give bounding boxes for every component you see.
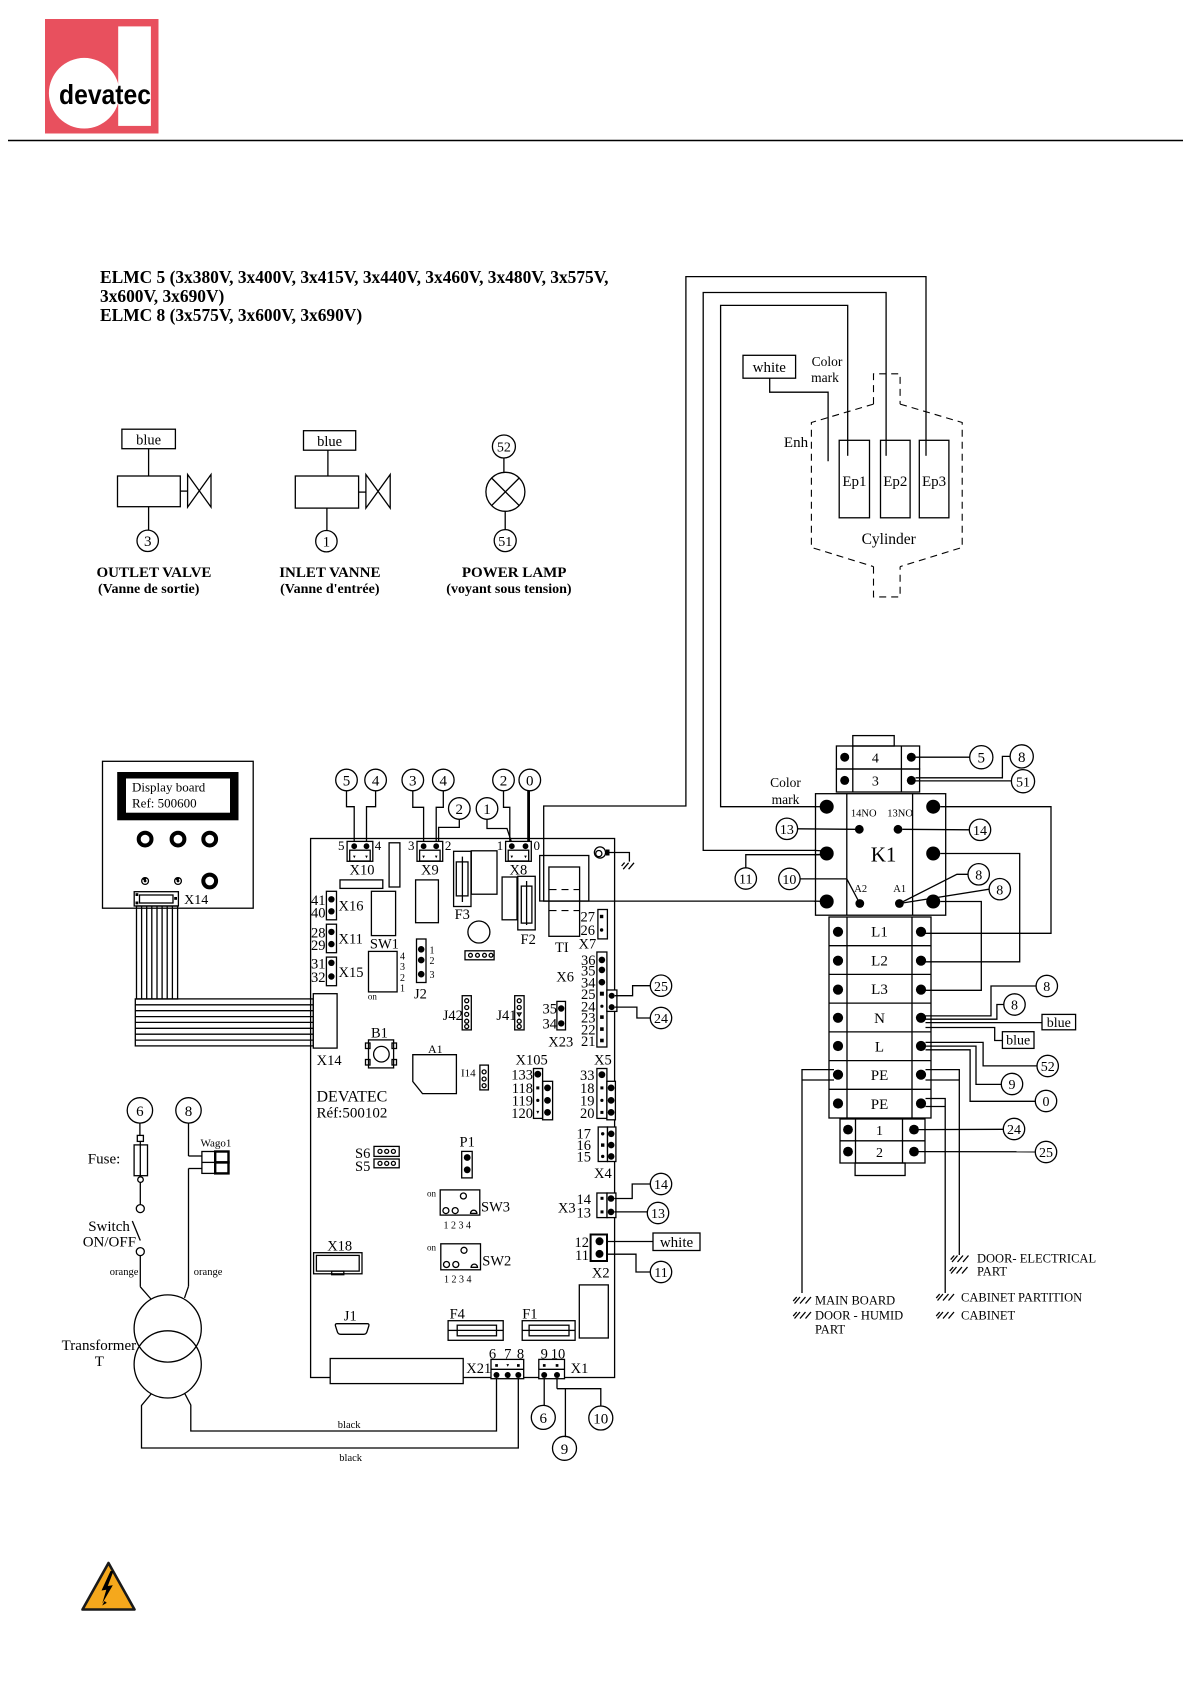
node 51 (right)	[1011, 770, 1034, 793]
connector X6	[556, 952, 607, 1050]
node 8a	[968, 864, 989, 885]
svg-text:2: 2	[500, 773, 508, 789]
wire K1 bottom-right to L3	[926, 902, 982, 991]
led + chassis ground top right	[594, 847, 634, 869]
svg-text:X21: X21	[466, 1361, 491, 1377]
svg-text:blue: blue	[317, 434, 342, 450]
buzzer circle	[468, 921, 490, 943]
wire 0 to X8 (thick)	[527, 791, 530, 845]
node 6 (bottom)	[531, 1405, 555, 1429]
svg-text:Wago1: Wago1	[201, 1138, 232, 1150]
node 6 (fuse feed)	[127, 1098, 152, 1123]
terminal row 4	[836, 746, 919, 769]
svg-text:A2: A2	[854, 884, 867, 895]
svg-text:3: 3	[144, 534, 152, 550]
svg-text:orange: orange	[194, 1267, 223, 1278]
svg-text:L2: L2	[871, 953, 888, 969]
svg-text:13: 13	[780, 823, 794, 838]
svg-text:3: 3	[430, 970, 435, 981]
node 3 (outlet valve)	[137, 530, 158, 551]
svg-text:X6: X6	[556, 970, 574, 986]
connector X3	[558, 1192, 616, 1222]
wire X2-12 to white box	[607, 1241, 653, 1243]
wire A1 to node 8b	[899, 889, 989, 903]
svg-text:3: 3	[409, 773, 417, 789]
svg-text:1: 1	[876, 1124, 883, 1139]
svg-text:K1: K1	[871, 843, 897, 867]
svg-text:11: 11	[575, 1248, 589, 1264]
svg-text:1: 1	[497, 838, 504, 853]
power lamp symbol	[486, 472, 525, 511]
node 5	[336, 769, 358, 791]
node 52 (right)	[1037, 1055, 1058, 1076]
svg-text:on: on	[368, 992, 378, 1002]
wire node8 to wago and down	[188, 1123, 190, 1286]
wire 11 to K1 mid-left	[746, 855, 820, 868]
jumper S5	[355, 1159, 399, 1175]
wire X6-24 to node 24	[615, 1007, 651, 1018]
connector J2	[414, 939, 435, 1003]
svg-text:ON/OFF: ON/OFF	[83, 1235, 136, 1251]
small led 2	[175, 878, 182, 885]
svg-text:X3: X3	[558, 1201, 576, 1217]
wire white box into cylinder	[770, 378, 828, 461]
rect right of F3	[471, 851, 497, 894]
ground cabinet partition	[936, 1291, 1082, 1305]
transformer secondary wires (black)	[142, 1379, 519, 1448]
transformer T	[62, 1295, 202, 1398]
connector X9	[408, 838, 451, 879]
node 10 (bottom)	[589, 1406, 613, 1430]
jumper S6	[355, 1146, 399, 1162]
svg-text:(Vanne de sortie): (Vanne de sortie)	[98, 582, 200, 597]
svg-text:11: 11	[739, 873, 752, 888]
blue box 1	[1042, 1014, 1076, 1029]
svg-text:DOOR- ELECTRICAL: DOOR- ELECTRICAL	[977, 1252, 1096, 1266]
svg-text:52: 52	[1041, 1060, 1055, 1075]
svg-text:X7: X7	[579, 937, 597, 953]
wire block2 to node 25	[918, 1151, 1035, 1153]
wire 4b to X9	[436, 791, 443, 843]
LCD frame	[117, 772, 238, 820]
svg-text:5: 5	[338, 838, 345, 853]
devatec logo	[45, 19, 159, 134]
svg-text:SW1: SW1	[370, 937, 399, 953]
svg-text:6: 6	[540, 1411, 548, 1427]
white color-mark box	[743, 355, 796, 378]
LEGEND: outlet valve	[97, 429, 212, 597]
svg-text:5: 5	[978, 751, 986, 767]
svg-text:Color: Color	[770, 775, 801, 790]
wire A1 to node 8a	[899, 874, 968, 903]
svg-text:X2: X2	[592, 1266, 610, 1282]
connector X15	[311, 957, 363, 987]
svg-text:4: 4	[400, 952, 405, 963]
wago1 block	[201, 1138, 232, 1174]
terminal block 4/3 top rect	[853, 736, 894, 746]
rect left of F2	[502, 877, 517, 920]
svg-text:INLET VANNE: INLET VANNE	[279, 565, 380, 581]
wire N to blue box 1	[926, 1022, 1043, 1024]
terminal row 3	[836, 769, 919, 792]
ribbon cable vertical	[137, 906, 178, 999]
electrode Ep2	[881, 440, 911, 518]
node 51 (power lamp)	[494, 530, 516, 552]
node 8b	[989, 879, 1010, 900]
svg-text:3x600V, 3x690V): 3x600V, 3x690V)	[100, 286, 225, 306]
svg-text:2: 2	[430, 956, 435, 967]
wire K1 mid-right to L2	[926, 854, 1020, 962]
svg-text:DOOR - HUMID: DOOR - HUMID	[815, 1309, 903, 1323]
svg-text:OUTLET VALVE: OUTLET VALVE	[97, 565, 212, 581]
warning triangle	[83, 1563, 135, 1610]
button B1	[366, 1026, 397, 1068]
LEGEND: inlet vanne	[279, 431, 390, 597]
wire X3-14 to node 14	[614, 1184, 650, 1199]
svg-text:TI: TI	[555, 940, 569, 956]
blue box 2	[1002, 1032, 1034, 1049]
svg-text:4: 4	[372, 773, 380, 789]
svg-text:Ep1: Ep1	[842, 474, 866, 490]
svg-text:X14: X14	[184, 893, 208, 908]
rect below X9	[416, 880, 439, 923]
wire stubs inside electrodes	[847, 440, 849, 456]
svg-text:B1: B1	[371, 1026, 388, 1042]
knob 1	[139, 833, 152, 846]
svg-text:1: 1	[430, 945, 435, 956]
connector X5	[580, 1053, 615, 1123]
contactor K1	[816, 794, 946, 916]
svg-text:MAIN BOARD: MAIN BOARD	[815, 1294, 895, 1308]
wire bends into transformer	[140, 1287, 151, 1300]
svg-text:25: 25	[654, 980, 668, 995]
svg-text:Ep2: Ep2	[883, 474, 907, 490]
svg-text:black: black	[338, 1420, 361, 1431]
fuse F3	[454, 851, 471, 923]
small led 1	[142, 878, 149, 885]
connector X10	[338, 838, 382, 879]
ribbon cable horizontal	[135, 999, 313, 1046]
ground door-humid	[793, 1309, 903, 1337]
svg-text:X14: X14	[317, 1053, 343, 1069]
wire N to blue box 2	[926, 1028, 1003, 1041]
node 4	[365, 769, 387, 791]
connector X7	[579, 910, 608, 953]
rect under X10	[340, 880, 383, 889]
SW1 dip block	[369, 951, 398, 992]
wire L to node 52	[926, 1042, 1038, 1066]
svg-text:blue: blue	[136, 433, 161, 449]
svg-text:Cylinder: Cylinder	[862, 531, 917, 548]
electrode Ep1	[839, 440, 869, 518]
wire valve to circle 3	[148, 507, 150, 530]
svg-text:29: 29	[311, 938, 326, 954]
connector X8	[497, 838, 540, 879]
svg-text:X11: X11	[339, 932, 363, 948]
svg-text:11: 11	[654, 1266, 667, 1281]
node 24 (left)	[650, 1007, 671, 1028]
node 8d	[1004, 994, 1025, 1015]
connector I14	[461, 1065, 488, 1090]
node 0 (right)	[1035, 1090, 1056, 1111]
svg-text:ELMC 5 (3x380V, 3x400V, 3x415V: ELMC 5 (3x380V, 3x400V, 3x415V, 3x440V, …	[100, 267, 608, 287]
cylinder bottom neck	[874, 567, 901, 597]
wire PE left to main-board ground	[802, 1070, 834, 1293]
svg-text:X15: X15	[339, 965, 364, 981]
wire Ep2 to K1 mid-left	[703, 293, 886, 851]
node 8c	[1036, 975, 1057, 996]
svg-text:ELMC 8 (3x575V, 3x600V, 3x690V: ELMC 8 (3x575V, 3x600V, 3x690V)	[100, 305, 362, 325]
svg-text:CABINET PARTITION: CABINET PARTITION	[961, 1291, 1082, 1305]
ground cabinet	[936, 1309, 1015, 1323]
svg-text:32: 32	[311, 970, 326, 986]
connector X2	[575, 1235, 610, 1282]
knob 3	[203, 833, 216, 846]
svg-text:T: T	[95, 1354, 104, 1370]
svg-text:15: 15	[577, 1150, 592, 1166]
connector J42	[443, 996, 472, 1030]
node 4b	[433, 769, 455, 791]
svg-text:5: 5	[343, 773, 351, 789]
svg-text:blue: blue	[1047, 1016, 1071, 1031]
svg-text:8: 8	[185, 1104, 193, 1120]
svg-text:N: N	[874, 1011, 885, 1027]
wire blue box to valve body	[148, 449, 150, 476]
svg-text:white: white	[660, 1235, 694, 1251]
svg-text:Color: Color	[812, 354, 843, 369]
svg-text:8: 8	[1043, 980, 1050, 995]
valve bowtie symbol (inlet)	[366, 475, 390, 509]
node 2b	[449, 798, 471, 820]
node 2	[493, 769, 515, 791]
node 11b	[650, 1261, 671, 1282]
transformer TI	[540, 856, 589, 957]
wire row3 to node 8	[916, 756, 1011, 777]
svg-text:on: on	[427, 1243, 437, 1253]
svg-text:(voyant sous tension): (voyant sous tension)	[446, 582, 572, 597]
jumper P1	[460, 1135, 475, 1178]
svg-text:Fuse:: Fuse:	[88, 1152, 121, 1168]
outlet valve body	[118, 476, 181, 507]
svg-text:J1: J1	[344, 1309, 357, 1325]
svg-text:0: 0	[526, 773, 534, 789]
svg-text:Ep3: Ep3	[922, 474, 946, 490]
svg-text:Ref: 500600: Ref: 500600	[132, 796, 197, 811]
svg-text:3: 3	[872, 775, 879, 790]
node 5 (right)	[970, 746, 993, 769]
node 9 (bottom)	[553, 1436, 577, 1460]
svg-text:52: 52	[497, 441, 511, 456]
svg-text:J41: J41	[496, 1008, 516, 1024]
wire L to node 9	[926, 1046, 1002, 1084]
wire row4 to node 5	[916, 756, 970, 758]
svg-text:black: black	[339, 1453, 362, 1464]
node 13 (left of terminals)	[647, 1202, 668, 1223]
svg-text:X1: X1	[571, 1361, 589, 1377]
cylinder dashed outline	[811, 404, 873, 566]
cylinder top neck	[874, 374, 901, 404]
electrode Ep3	[919, 440, 949, 518]
svg-text:Réf:500102: Réf:500102	[317, 1106, 388, 1122]
svg-text:SW2: SW2	[482, 1254, 511, 1270]
blue label box (inlet)	[304, 431, 356, 451]
knob 4	[203, 875, 216, 888]
svg-text:A1: A1	[893, 884, 906, 895]
node 24 (right)	[1003, 1118, 1024, 1139]
wire 1 to X8	[487, 819, 512, 843]
svg-text:34: 34	[543, 1017, 558, 1033]
node 3	[402, 769, 424, 791]
wire valve body to bowtie	[359, 491, 366, 493]
svg-text:13NO: 13NO	[887, 809, 913, 820]
knob 2	[172, 833, 185, 846]
svg-text:120: 120	[511, 1106, 533, 1122]
svg-text:SW3: SW3	[481, 1200, 510, 1216]
svg-text:9: 9	[561, 1442, 569, 1458]
svg-text:Display board: Display board	[132, 780, 206, 795]
svg-text:2: 2	[456, 802, 464, 818]
node 13	[776, 818, 797, 839]
svg-text:mark: mark	[772, 792, 800, 807]
svg-text:J42: J42	[443, 1008, 463, 1024]
svg-text:14: 14	[973, 824, 987, 839]
wire X3-13 to node 13	[614, 1211, 647, 1213]
svg-text:L1: L1	[871, 925, 888, 941]
wire Ep1 to K1 top-left	[721, 305, 848, 806]
svg-text:white: white	[753, 360, 787, 376]
svg-text:21: 21	[581, 1034, 596, 1050]
connector J1	[335, 1309, 369, 1335]
svg-text:blue: blue	[1006, 1034, 1030, 1049]
wire valve to circle 1	[326, 508, 328, 530]
svg-text:35: 35	[543, 1002, 558, 1018]
connector J41	[496, 996, 524, 1030]
svg-text:2: 2	[400, 973, 405, 984]
wire X1-10 to node 9	[557, 1379, 565, 1438]
wire blue box to valve body	[327, 450, 329, 476]
wire X1-10 branch to node 10	[557, 1389, 601, 1406]
ic A1	[413, 1042, 457, 1094]
node 25 (right)	[1035, 1141, 1056, 1162]
svg-text:14: 14	[654, 1178, 668, 1193]
display board outline	[103, 761, 254, 908]
wire N to node 8d	[926, 1005, 1004, 1020]
header rule	[8, 140, 1183, 142]
connector X105	[511, 1053, 552, 1123]
svg-text:Switch: Switch	[88, 1219, 130, 1235]
node 11	[735, 868, 756, 889]
svg-text:8: 8	[1018, 750, 1026, 766]
svg-text:X9: X9	[421, 863, 439, 879]
rect right of X10	[389, 843, 400, 887]
node 10	[779, 868, 800, 889]
node 14	[969, 819, 990, 840]
white box (X2-12)	[653, 1233, 700, 1251]
wire lamp to circle 51	[504, 511, 506, 530]
svg-text:24: 24	[1007, 1123, 1021, 1138]
svg-text:A1: A1	[428, 1042, 443, 1056]
ground main board	[793, 1294, 895, 1308]
wire 4 to X10	[367, 791, 376, 843]
svg-text:(Vanne d'entrée): (Vanne d'entrée)	[280, 582, 380, 597]
wire 3 to X9	[413, 791, 424, 843]
svg-text:J2: J2	[414, 987, 427, 1003]
svg-text:devatec: devatec	[59, 79, 151, 110]
LEGEND: power lamp	[446, 435, 572, 597]
X14 board-side connector	[313, 994, 337, 1048]
connector X16	[311, 891, 363, 921]
svg-text:X5: X5	[594, 1053, 612, 1069]
wire valve body to bowtie	[180, 490, 187, 492]
svg-text:CABINET: CABINET	[961, 1309, 1016, 1323]
fuse F1	[522, 1307, 575, 1341]
svg-text:0: 0	[534, 838, 541, 853]
svg-text:PART: PART	[815, 1323, 845, 1337]
wire K1 top-right to L1	[926, 807, 1052, 934]
svg-text:6: 6	[136, 1104, 144, 1120]
valve bowtie symbol (outlet)	[188, 475, 211, 508]
wire 13NO to 14	[902, 828, 969, 831]
svg-text:4: 4	[440, 773, 448, 789]
svg-text:PE: PE	[871, 1068, 889, 1084]
wire 52 to lamp	[503, 458, 505, 473]
connector X4	[577, 1127, 616, 1183]
svg-text:40: 40	[311, 906, 326, 922]
switch ON/OFF	[83, 1205, 145, 1287]
svg-text:DEVATEC: DEVATEC	[317, 1089, 388, 1106]
connector X11	[311, 924, 363, 954]
svg-text:51: 51	[498, 535, 512, 550]
connector X23	[543, 1001, 574, 1050]
DISPLAY BOARD	[103, 761, 254, 908]
title	[100, 267, 608, 325]
wire stubs into K1 left terminals	[814, 806, 823, 808]
X14 display-side connector	[134, 892, 178, 906]
dip switch SW3	[427, 1189, 510, 1232]
svg-text:14NO: 14NO	[851, 809, 877, 820]
svg-text:10: 10	[782, 873, 796, 888]
node 8 (wago feed)	[176, 1098, 201, 1123]
svg-text:1: 1	[323, 534, 331, 550]
svg-text:POWER LAMP: POWER LAMP	[462, 565, 567, 581]
main terminal block L1..PE	[829, 917, 931, 1118]
wire 13 to 14NO	[798, 828, 855, 831]
svg-text:I14: I14	[461, 1068, 476, 1080]
svg-text:X10: X10	[350, 863, 375, 879]
svg-text:4: 4	[872, 752, 879, 767]
svg-text:P1: P1	[460, 1135, 475, 1151]
svg-text:13: 13	[651, 1207, 665, 1222]
svg-text:3: 3	[400, 962, 405, 973]
wire X2-11 to node 11	[607, 1254, 650, 1272]
svg-text:10: 10	[593, 1412, 608, 1428]
node 8 (top right)	[1010, 745, 1033, 768]
wire N to node 8c	[926, 986, 1037, 1016]
fuse F4	[448, 1307, 503, 1341]
svg-text:mark: mark	[811, 370, 839, 385]
dip switch SW2	[427, 1243, 511, 1286]
svg-text:2: 2	[876, 1146, 883, 1161]
MAIN BOARD outline	[311, 839, 615, 1378]
wire PE2 to cabinet-partition ground	[926, 1099, 946, 1294]
svg-text:S5: S5	[355, 1159, 370, 1175]
node 1 (inlet vanne)	[316, 531, 337, 552]
fuse (Fuse:)	[88, 1135, 148, 1204]
node 0	[519, 769, 541, 791]
long rect at board bottom	[330, 1359, 463, 1384]
ground door-electrical part 2	[950, 1265, 1008, 1279]
svg-text:8: 8	[996, 883, 1003, 898]
